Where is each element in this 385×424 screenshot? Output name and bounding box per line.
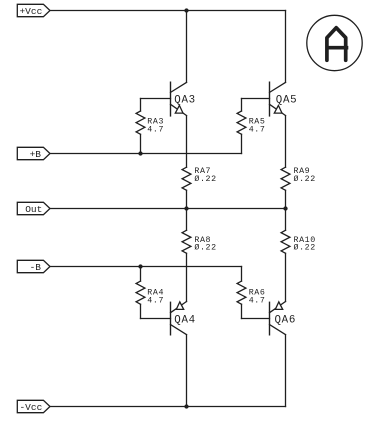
wire QA5 base <box>242 98 270 100</box>
junction +B/RA3 <box>138 151 142 155</box>
junction -Vcc/QA4 collector <box>184 404 188 408</box>
transistor QA4 <box>171 302 196 407</box>
svg-text:-Vcc: -Vcc <box>19 402 42 413</box>
wire -B rail <box>50 266 242 268</box>
resistor RA8 <box>182 209 217 302</box>
svg-text:Ø.22: Ø.22 <box>194 243 216 253</box>
resistor RA10 <box>281 209 316 302</box>
resistor RA3 <box>136 99 164 154</box>
junction -B/RA4 <box>138 264 142 268</box>
wire QA6 base <box>242 318 270 320</box>
svg-text:Ø.22: Ø.22 <box>194 174 216 184</box>
svg-text:QA5: QA5 <box>276 94 298 106</box>
terminal +B <box>17 147 50 160</box>
terminal +Vcc <box>17 4 50 16</box>
svg-text:+Vcc: +Vcc <box>19 6 42 17</box>
resistor RA5 <box>237 99 265 154</box>
svg-text:-B: -B <box>30 262 42 273</box>
svg-text:4.7: 4.7 <box>249 126 266 135</box>
svg-text:QA6: QA6 <box>275 315 297 327</box>
transistor QA6 <box>270 302 297 407</box>
svg-text:Ø.22: Ø.22 <box>294 243 316 253</box>
resistor RA6 <box>237 267 265 319</box>
terminal Out <box>17 202 50 215</box>
junction +Vcc/QA3 collector <box>184 8 188 12</box>
resistor RA9 <box>281 116 316 209</box>
terminal -B <box>17 260 50 273</box>
wire -Vcc rail <box>50 406 286 408</box>
svg-text:4.7: 4.7 <box>249 296 266 305</box>
logo circle <box>307 15 362 70</box>
wire QA4 base <box>141 318 171 320</box>
svg-text:Out: Out <box>25 204 42 215</box>
svg-text:Ø.22: Ø.22 <box>294 174 316 184</box>
resistor RA7 <box>182 116 217 209</box>
svg-text:QA3: QA3 <box>174 94 196 106</box>
wire QA3 base <box>141 98 171 100</box>
transistor QA3 <box>171 11 196 116</box>
logo letter A <box>327 28 348 61</box>
wire +Vcc rail <box>50 10 286 12</box>
svg-text:4.7: 4.7 <box>147 296 164 305</box>
junction Out/RA9/RA10 <box>283 206 287 210</box>
resistor RA4 <box>136 267 164 319</box>
wire Out rail <box>50 208 286 210</box>
svg-text:4.7: 4.7 <box>147 126 164 135</box>
svg-text:QA4: QA4 <box>174 315 196 327</box>
junction Out/RA7/RA8 <box>184 206 188 210</box>
terminal -Vcc <box>17 400 50 413</box>
svg-text:+B: +B <box>30 149 42 160</box>
transistor QA5 <box>270 11 298 116</box>
wire +B rail <box>50 153 242 155</box>
